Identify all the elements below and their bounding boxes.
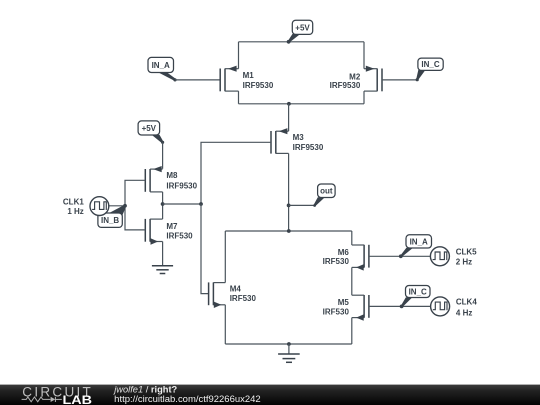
power flag +5V (top) — [287, 20, 313, 43]
voltage source CLK4 4 Hz (square wave) — [431, 297, 478, 318]
wire M7 source to ground — [162, 242, 164, 266]
ground (below M7) — [152, 266, 173, 274]
svg-text:IN_C: IN_C — [409, 287, 427, 296]
transistor M2 IRF9530 (PMOS, mirrored) — [330, 66, 382, 92]
svg-text:IRF9530: IRF9530 — [166, 181, 197, 190]
wire top-rect left edge lower (M1 drain lead) — [238, 91, 240, 104]
wire bottom-rect left edge upper (M4 drain lead) — [224, 231, 226, 283]
net flag IN_A (left, gate of M1) — [148, 57, 177, 81]
junction dot gates of M3/M4 — [199, 202, 203, 206]
node out: junction dot — [287, 204, 291, 208]
svg-text:jwolfe1 / right?: jwolfe1 / right? — [112, 384, 177, 394]
svg-text:IRF530: IRF530 — [323, 257, 350, 266]
CircuitLab logo resistor-diode glyph — [22, 397, 62, 402]
svg-text:IN_A: IN_A — [410, 237, 428, 246]
net flag IN_C (right) — [400, 286, 430, 309]
wire ground stub — [288, 344, 290, 354]
svg-text:M3: M3 — [293, 133, 305, 142]
wire M3 gate net (to junction at left) — [201, 142, 271, 204]
svg-text:CLK4: CLK4 — [456, 298, 477, 307]
svg-text:1 Hz: 1 Hz — [67, 207, 83, 216]
net flag IN_A (right) — [399, 235, 432, 258]
svg-text:IRF530: IRF530 — [166, 232, 193, 241]
svg-text:M7: M7 — [166, 222, 178, 231]
wire bottom-rect left edge lower (M4 source lead) — [224, 305, 226, 344]
svg-text:LAB: LAB — [63, 393, 93, 405]
net flag IN_C (top right) — [416, 58, 444, 81]
net flag IN_B — [98, 205, 126, 228]
wire M6 gate to CLK5 — [369, 255, 431, 257]
svg-text:IN_C: IN_C — [421, 60, 439, 69]
wire bottom-rect right edge upper (M6 drain lead) — [351, 231, 353, 245]
svg-text:2 Hz: 2 Hz — [456, 258, 472, 267]
junction dot top-rect bottom rail — [287, 102, 291, 106]
transistor M3 IRF9530 (PMOS) — [271, 128, 324, 154]
wire junction down to M4 gate — [201, 204, 209, 294]
svg-text:IN_B: IN_B — [101, 216, 119, 225]
wire CLK1 to gate ladder — [109, 205, 125, 207]
svg-text:IRF9530: IRF9530 — [293, 143, 324, 152]
transistor M4 IRF530 (NMOS) — [209, 282, 257, 308]
svg-text:4 Hz: 4 Hz — [456, 308, 472, 317]
svg-text:+5V: +5V — [295, 23, 310, 32]
svg-text:M4: M4 — [230, 285, 242, 294]
wire +5V to M8 source — [162, 142, 164, 168]
wire out stub — [289, 204, 315, 206]
junction dot out node on top rail — [287, 229, 291, 233]
svg-text:out: out — [320, 187, 333, 196]
wire bottom-rect bottom rail — [225, 343, 351, 345]
junction dot bottom rail / ground — [287, 342, 291, 346]
wire M5 gate to CLK4 — [369, 305, 431, 307]
transistor M7 IRF530 (NMOS) — [145, 219, 193, 245]
voltage source CLK1 1 Hz (square wave) — [63, 197, 109, 216]
svg-text:M5: M5 — [338, 298, 350, 307]
wire M2 gate to IN_C — [382, 79, 417, 81]
wire top-rect right edge lower (M2 drain lead) — [363, 91, 365, 104]
transistor M6 IRF530 (NMOS, mirrored) — [323, 245, 369, 271]
FOOTER — [0, 385, 540, 405]
svg-text:IN_A: IN_A — [152, 61, 170, 70]
svg-text:IRF530: IRF530 — [323, 307, 350, 316]
wire IN_A to M1 gate — [175, 79, 220, 81]
voltage source CLK5 2 Hz (square wave) — [430, 247, 477, 267]
svg-text:IRF530: IRF530 — [230, 294, 257, 303]
svg-text:IRF9530: IRF9530 — [330, 81, 361, 90]
svg-text:M6: M6 — [338, 248, 350, 257]
svg-text:+5V: +5V — [142, 124, 157, 133]
wire gate ladder M8/M7 — [125, 180, 145, 230]
wire M5 source to bottom rail — [351, 318, 353, 344]
svg-text:CLK1: CLK1 — [63, 197, 84, 206]
ground (bottom) — [278, 354, 300, 362]
wire node to gates junction — [163, 203, 201, 205]
svg-text:CLK5: CLK5 — [456, 247, 477, 256]
wire M3 source lead (rail to M3) — [288, 104, 290, 131]
wire top +5V rail — [239, 41, 365, 43]
wire top-rect left edge upper (M1 source lead) — [238, 42, 240, 69]
wire top-rect right edge upper (M2 source lead) — [363, 42, 365, 69]
power flag +5V (left) — [138, 121, 164, 144]
wire M6 source to M5 drain — [351, 267, 353, 295]
svg-text:IRF9530: IRF9530 — [243, 81, 274, 90]
junction dot gate ladder / CLK1 — [123, 204, 127, 208]
wire M8 drain to node — [162, 192, 164, 219]
wire top-rect bottom rail — [239, 103, 365, 105]
transistor M8 IRF9530 (PMOS) — [145, 166, 197, 192]
net flag out — [313, 184, 335, 207]
wire M3 drain to out node and bottom rect — [288, 153, 290, 231]
svg-text:M8: M8 — [166, 171, 178, 180]
transistor M1 IRF9530 (PMOS) — [220, 66, 274, 92]
svg-text:M1: M1 — [243, 71, 255, 80]
transistor M5 IRF530 (NMOS, mirrored) — [323, 295, 369, 321]
junction dot M8/M7 drain node — [161, 202, 165, 206]
svg-text:http://circuitlab.com/ctf92266: http://circuitlab.com/ctf92266ux242 — [114, 394, 260, 404]
wire bottom-rect top rail — [225, 230, 351, 232]
